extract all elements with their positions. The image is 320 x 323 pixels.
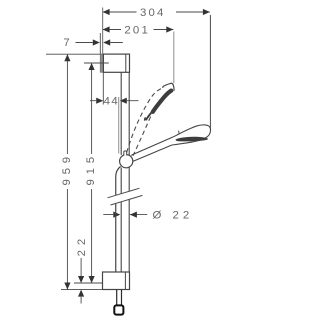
hose end cap xyxy=(114,305,123,314)
dim 915 arrows xyxy=(89,63,95,283)
wall plate xyxy=(100,54,103,72)
upper shower spray face xyxy=(153,91,172,112)
ext line left of plate xyxy=(99,33,101,54)
bottom bracket xyxy=(103,272,130,290)
upper shower spray tail fleck xyxy=(144,118,147,120)
upper shower head cap xyxy=(163,83,174,90)
dim 44 arrows xyxy=(90,100,139,102)
ext line B bottom xyxy=(61,289,103,291)
lower shower head xyxy=(172,125,211,145)
ext line 44 left xyxy=(102,72,104,104)
dim 7 arrows xyxy=(76,42,123,44)
lower shower head tick xyxy=(178,131,181,135)
svg-text:22: 22 xyxy=(76,234,88,257)
svg-text:7: 7 xyxy=(63,37,69,49)
ext line A bottom xyxy=(74,282,103,284)
ext line 44 right gray xyxy=(118,97,120,154)
lower shower handle xyxy=(131,137,173,162)
bottom bracket inner line xyxy=(124,272,126,290)
upper shower dashed right edge xyxy=(133,110,154,156)
upper shower spray tail xyxy=(146,113,151,120)
svg-text:44: 44 xyxy=(104,96,120,108)
break band xyxy=(108,188,143,205)
dim 201 line xyxy=(103,29,174,31)
top bracket xyxy=(103,54,129,72)
dim 915 line xyxy=(91,63,93,283)
svg-text:959: 959 xyxy=(61,152,73,185)
svg-text:915: 915 xyxy=(85,152,97,185)
ext line 915 top horizontal xyxy=(84,62,109,64)
dim 22 lines/arrows xyxy=(80,258,82,304)
svg-text:304: 304 xyxy=(140,7,166,19)
break line upper xyxy=(108,188,140,198)
slider nub xyxy=(124,151,127,156)
svg-text:Ø 22: Ø 22 xyxy=(153,210,194,222)
break line lower xyxy=(111,195,143,205)
ext line top horizontal xyxy=(46,53,103,55)
ext line 201 right gray xyxy=(173,32,175,84)
ext line 304 right xyxy=(209,15,211,131)
dim 959 line xyxy=(66,54,68,289)
hose xyxy=(116,166,121,272)
ext line 304/201 left xyxy=(102,8,104,55)
rail tube xyxy=(121,72,129,272)
hose end tube xyxy=(117,290,122,306)
dim 201 arrows xyxy=(103,26,174,32)
lower shower spray face xyxy=(176,137,208,142)
upper shower dashed left edge xyxy=(127,87,164,152)
top bracket inner line xyxy=(125,54,127,72)
svg-text:201: 201 xyxy=(124,24,150,36)
dim 959 arrows xyxy=(64,54,70,289)
dim 304 line xyxy=(103,11,210,13)
dim 304 arrows xyxy=(103,9,210,15)
dim diameter 22 xyxy=(103,214,147,216)
slider circle xyxy=(120,155,133,168)
